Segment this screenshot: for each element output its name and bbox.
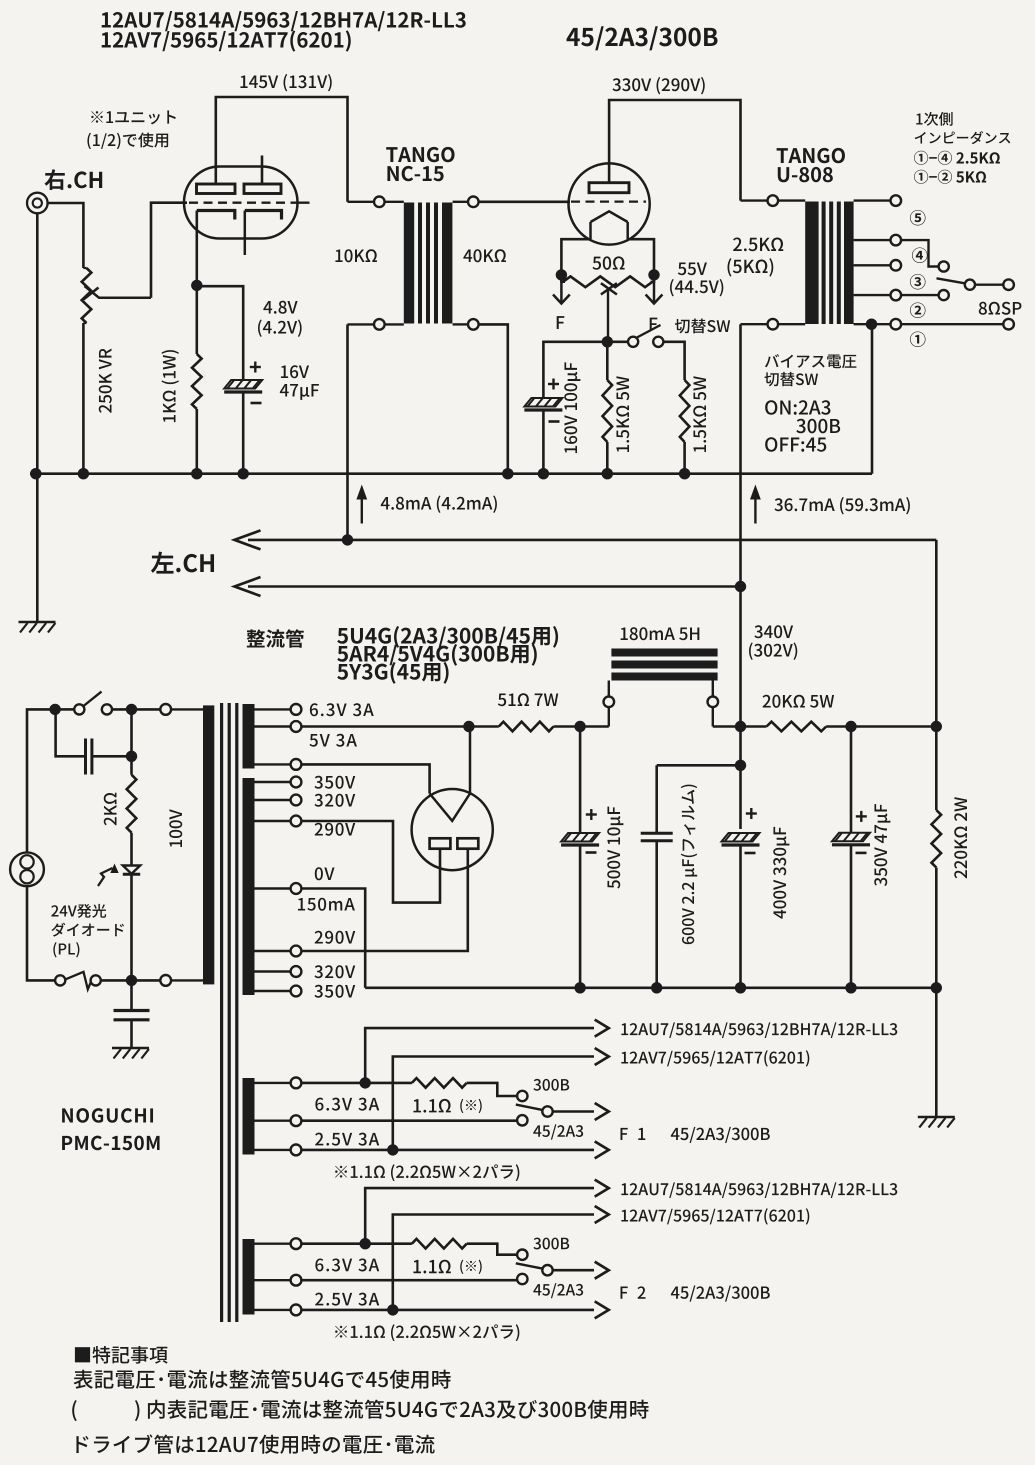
terminal 0V xyxy=(255,883,302,894)
selector contact 2 xyxy=(939,290,949,300)
transformer T3 secondary W3 xyxy=(243,1078,255,1155)
capacitor 47uF 350V plus xyxy=(856,811,867,822)
junction 2.2uF tee on 340V line xyxy=(735,760,746,771)
selector lever xyxy=(937,278,965,283)
wire cathode bias rail xyxy=(30,472,872,475)
label F1 2.5V 3A xyxy=(315,1133,379,1146)
label 100V xyxy=(169,809,182,847)
label 16V xyxy=(281,365,309,378)
terminal 350V lower xyxy=(255,986,302,997)
label 350V upper xyxy=(314,776,355,789)
wire F2 resistor to contact xyxy=(467,1244,517,1255)
LED pilot lamp xyxy=(123,866,140,875)
junction F2 6.3V xyxy=(360,1238,371,1249)
tube V3 plate b xyxy=(457,838,478,848)
junction F1 6.3V xyxy=(360,1077,371,1088)
wire switch to primary top xyxy=(112,708,160,711)
wire cap 47uF to rail xyxy=(242,392,245,474)
tube V3 plate a xyxy=(430,838,451,848)
capacitor mains to chassis xyxy=(114,980,150,1048)
wire selector to SP plus xyxy=(975,284,1003,286)
terminal 5V b xyxy=(255,759,302,770)
note line2 open paren xyxy=(72,1400,77,1421)
junction 1K bottom on rail xyxy=(191,468,202,479)
terminal T1 primary top xyxy=(348,197,404,208)
pin label 3 xyxy=(910,274,926,290)
tube U1 cathode a xyxy=(197,211,235,220)
label 2K ohm xyxy=(104,793,117,826)
switch SW bias contacts xyxy=(628,337,663,347)
switch F1 common xyxy=(542,1106,552,1116)
label 330V xyxy=(612,77,704,94)
label 4.2V xyxy=(258,319,302,336)
transformer T1 NC-15 primary winding xyxy=(404,203,414,324)
label 47uF xyxy=(280,384,319,400)
label 20K ohm 5W xyxy=(763,695,835,708)
terminal T1 secondary top xyxy=(453,197,479,208)
terminal F1 2.5V xyxy=(255,1145,302,1156)
label impedance 1-4 xyxy=(914,151,1000,165)
transformer T3 core xyxy=(220,703,238,1322)
arrow F left xyxy=(553,280,570,304)
label impedance 1-2 xyxy=(914,170,986,184)
junction mains top filter xyxy=(49,704,60,715)
wire wiper to grid xyxy=(151,203,187,298)
wire filament left to hum pot xyxy=(561,239,590,275)
capacitor 330uF plus xyxy=(746,808,757,819)
label TANGO 2 xyxy=(777,148,845,163)
transformer T1 core xyxy=(418,203,438,324)
label 0V xyxy=(315,867,335,880)
wire 5V a to 51 ohm xyxy=(301,725,498,728)
label F2 12AV7 heaters xyxy=(621,1208,809,1224)
tap wire 1 xyxy=(854,323,891,325)
capacitor 2.2uF film xyxy=(641,765,673,988)
label 44.5V xyxy=(670,279,723,296)
label NOGUCHI xyxy=(62,1108,153,1123)
junction bias node 2A3 xyxy=(602,336,613,347)
wire jack to volume pot xyxy=(48,203,84,268)
terminal F2 CT xyxy=(255,1275,302,1286)
label F right xyxy=(650,318,658,331)
capacitor 100uF electrolytic xyxy=(524,398,562,410)
label F2 1.1 ohm xyxy=(413,1260,450,1274)
switch F2 lever xyxy=(516,1263,543,1268)
terminal T1 secondary bottom xyxy=(453,319,479,330)
label 320V upper xyxy=(314,794,355,807)
label NC-15 xyxy=(387,166,443,181)
label 5V 3A xyxy=(309,734,356,747)
label 36.7mA xyxy=(774,497,909,514)
resistor F2 1.1 ohm xyxy=(412,1239,467,1249)
junction cap 100uF on rail xyxy=(538,468,549,479)
transformer T3 secondary W4 xyxy=(243,1239,255,1315)
tube U1 plate b lead stub xyxy=(261,156,264,185)
label 5U4G list2 xyxy=(337,644,537,666)
wire PSU ground rail xyxy=(365,986,936,989)
tube V3 5U4G envelope xyxy=(412,789,493,870)
label rectifier tube xyxy=(247,629,304,648)
junction 2.2uF bottom xyxy=(651,982,662,993)
resistor 20K 5W xyxy=(767,722,827,732)
label 6.3V 3A xyxy=(310,703,374,716)
terminal F2 6.3V xyxy=(255,1238,302,1249)
selector contact 4 xyxy=(939,261,949,271)
tube U1 grid lead right stub xyxy=(292,202,310,204)
label bias voltage line2 xyxy=(764,372,818,386)
pin label 1 xyxy=(910,331,926,347)
label bias ON 2A3 xyxy=(765,400,830,415)
wire tap4 to selector xyxy=(901,240,938,266)
label 55V xyxy=(678,262,707,275)
label 5U4G list3 xyxy=(337,662,448,684)
junction mains bottom xyxy=(126,975,137,986)
resistor 1K 1W cathode xyxy=(192,285,202,473)
potentiometer 50 ohm hum xyxy=(561,275,654,287)
terminal T2 primary bottom xyxy=(741,319,806,330)
wire F1 heater feed 12AU7 xyxy=(365,1020,609,1083)
tube U1 12AU7 envelope xyxy=(184,167,298,239)
tube V2 filament leads xyxy=(591,222,628,239)
wire F2 common arrow F xyxy=(553,1262,609,1279)
junction cap 10uF top xyxy=(574,721,585,732)
capacitor 330uF minus xyxy=(745,852,756,855)
tube U1 grid dashed xyxy=(189,202,292,204)
junction hum pot left xyxy=(556,269,567,280)
junction 1.5K no2 on rail xyxy=(679,468,690,479)
junction F2 2.5V xyxy=(387,1304,398,1315)
choke left terminal xyxy=(604,681,615,727)
switch mains bottom pole xyxy=(55,972,101,990)
note 1 unit used line2 xyxy=(87,132,168,149)
current arrow 36.7mA xyxy=(750,485,761,524)
label 350V lower xyxy=(314,985,355,998)
wire pot bottom to rail xyxy=(82,323,85,474)
switch F2 contact 45 2A3 xyxy=(517,1274,527,1284)
junction F1 2.5V xyxy=(387,1144,398,1155)
transformer T2 core xyxy=(822,202,841,325)
label 220K ohm 2W xyxy=(954,797,967,878)
pot 50 wiper arrow xyxy=(601,283,617,342)
label 150mA xyxy=(298,898,355,911)
arrow F right xyxy=(646,280,663,304)
junction 340V node xyxy=(735,721,746,732)
transformer T2 U-808 primary winding xyxy=(805,202,818,325)
wire plug bottom xyxy=(27,886,55,980)
wire T1 secondary bottom to rail xyxy=(479,324,508,473)
tube type title 12AV7 family xyxy=(102,30,351,51)
switch F1 contact 45 2A3 xyxy=(517,1115,527,1125)
label F2 6.3V 3A xyxy=(315,1258,379,1271)
label F2 2.5V 3A xyxy=(315,1293,379,1306)
terminal sec 3 xyxy=(891,260,902,271)
wire cap 100uF to rail xyxy=(542,410,545,474)
wire F2 2.5V arrow F xyxy=(301,1301,608,1318)
label kirikae SW xyxy=(675,318,730,333)
wire B plus feed line to left channel xyxy=(235,530,937,549)
node 145V plate supply label xyxy=(240,74,331,91)
terminal 320V lower xyxy=(255,966,302,977)
label 1.5K no1 xyxy=(616,376,629,452)
wire 290V lower to plate xyxy=(301,850,467,952)
wire 340V feed line to left channel xyxy=(235,577,741,596)
wire switch bottom to primary xyxy=(101,979,160,982)
terminal 320V upper xyxy=(255,795,302,806)
choke L1 winding xyxy=(611,649,717,681)
terminal T2 primary top xyxy=(741,195,806,206)
ground chassis mains xyxy=(112,1048,149,1059)
terminal speaker minus xyxy=(1003,319,1014,330)
wire F2 6.3V to resistor xyxy=(301,1242,412,1245)
terminal F1 6.3V xyxy=(255,1078,302,1089)
tube V2 plate xyxy=(589,183,629,193)
wire tap2 to selector xyxy=(901,294,938,296)
switch mains top pole xyxy=(74,692,112,715)
label 160V 100uF xyxy=(564,362,580,453)
wire tap1 to SP minus xyxy=(901,323,1003,325)
wire filament right to hum pot xyxy=(628,239,654,275)
label F1 12AV7 heaters xyxy=(621,1050,809,1066)
wire F1 2.5V arrow F xyxy=(301,1141,608,1158)
junction 220K bottom xyxy=(931,982,942,993)
label primary impedance 2 xyxy=(915,131,1011,144)
wire switch to 1.5K no2 xyxy=(663,342,684,380)
wire F1 heater feed 12AV7 xyxy=(393,1048,609,1150)
label 1K ohm 1W xyxy=(161,350,178,422)
LED arrow xyxy=(98,864,119,887)
junction T1 secondary bottom on rail xyxy=(502,468,513,479)
label F1 45 2A3 xyxy=(533,1124,583,1139)
wire F1 common arrow F xyxy=(553,1103,609,1120)
switch F1 contact 300B xyxy=(517,1091,527,1101)
resistor 220K 2W xyxy=(932,540,942,988)
terminal primary top xyxy=(160,704,203,715)
tap wire 2 xyxy=(854,294,891,296)
label 24V LED line3 xyxy=(53,942,79,957)
switch F2 contact 300B xyxy=(517,1250,527,1260)
label F1 12AU7 heaters xyxy=(621,1022,897,1038)
label 400V 330uF xyxy=(773,827,789,919)
potentiometer 250K VR body xyxy=(82,268,92,323)
label F1 1.1 note xyxy=(460,1099,481,1113)
junction 1.5K no1 on rail xyxy=(602,468,613,479)
label PMC-150M xyxy=(62,1136,159,1151)
capacitor 10uF minus xyxy=(586,851,597,854)
resistor 2K xyxy=(127,756,137,865)
junction cathode bias node xyxy=(191,280,202,291)
terminal 290V upper xyxy=(255,816,302,827)
junction NC15 B feed xyxy=(342,534,353,545)
wire F1 resistor to contact xyxy=(467,1083,517,1096)
tap wire 5 xyxy=(854,199,891,201)
label bias voltage line1 xyxy=(765,354,857,368)
terminal sec 1 xyxy=(891,319,902,330)
terminal primary bottom xyxy=(160,975,203,986)
wire 20K to B plus node xyxy=(826,725,936,728)
label F1 1.1 ohm xyxy=(413,1099,450,1113)
label F2 12AU7 heaters xyxy=(621,1182,897,1198)
junction hum pot right xyxy=(648,269,659,280)
capacitor 47uF minus xyxy=(251,402,262,405)
terminal F1 CT xyxy=(255,1115,302,1126)
capacitor line filter xyxy=(56,709,132,774)
label 5U4G list1 xyxy=(337,626,558,648)
choke right terminal xyxy=(708,681,719,727)
note 1 unit used line1 xyxy=(91,110,176,124)
capacitor 100uF minus xyxy=(549,420,560,423)
label 250K VR xyxy=(99,349,112,413)
resistor 1.5K 5W no2 xyxy=(680,380,690,474)
tube V2 2A3 envelope xyxy=(569,163,650,244)
wire T1 primary bottom to B+ line xyxy=(346,324,349,540)
label 350V 47uF xyxy=(874,804,890,886)
label F2 1.1 note xyxy=(460,1260,481,1274)
transformer T3 secondary W2 xyxy=(243,778,255,995)
capacitor 47uF 350V xyxy=(832,727,870,988)
label 40K ohm xyxy=(463,249,506,262)
label U-808 xyxy=(778,167,833,182)
terminal 6.3V top xyxy=(255,704,302,715)
label F2 output xyxy=(621,1286,770,1302)
wire F1 6.3V to resistor xyxy=(301,1082,412,1085)
label 24V LED line1 xyxy=(51,904,106,918)
wire top to 2K node xyxy=(130,709,133,756)
wire F2 heater feed 12AU7 xyxy=(365,1180,609,1244)
label 51 ohm 7W xyxy=(498,693,558,706)
junction cap 47uF on rail xyxy=(238,468,249,479)
label bias OFF 45 xyxy=(765,437,826,452)
label TANGO xyxy=(386,147,454,162)
resistor 51 ohm 7W xyxy=(499,722,554,732)
label F1 300B xyxy=(533,1079,569,1091)
capacitor 330uF 400V xyxy=(722,833,760,988)
label bias 300B xyxy=(796,419,840,434)
note line2 body xyxy=(148,1400,649,1419)
transformer T1 secondary winding xyxy=(442,203,452,324)
label F1 output xyxy=(621,1127,770,1143)
wire 330V supply to U-808 primary top xyxy=(609,100,740,201)
label 302V xyxy=(749,642,797,659)
junction pot bottom on rail xyxy=(78,468,89,479)
terminal speaker plus xyxy=(1003,279,1014,290)
label 10K ohm xyxy=(335,249,377,262)
capacitor 47uF electrolytic xyxy=(224,380,262,392)
tube V2 grid dashed xyxy=(571,200,646,202)
switch F2 common xyxy=(542,1265,552,1275)
capacitor 10uF 500V xyxy=(561,727,599,988)
label 1.5K no2 xyxy=(693,376,706,452)
label F1 parallel note xyxy=(335,1164,519,1181)
label 50 ohm xyxy=(592,256,624,269)
label F left xyxy=(557,316,565,329)
pin label 2 xyxy=(910,302,926,318)
label 500V 10uF xyxy=(607,807,623,889)
junction 47uF bottom xyxy=(845,982,856,993)
tube U1 plate b xyxy=(244,184,281,194)
junction cap 47uF top xyxy=(845,721,856,732)
capacitor 10uF plus xyxy=(586,809,597,820)
wire 0V to ground rail xyxy=(301,889,365,988)
label 320V lower xyxy=(314,965,355,978)
wire F2 CT to contact xyxy=(301,1279,517,1282)
wire 5V b to filament xyxy=(301,764,429,793)
note header xyxy=(75,1346,168,1364)
label 5K ohm xyxy=(728,258,774,276)
label 4.8mA xyxy=(381,495,497,512)
capacitor 47uF 350V minus xyxy=(856,852,867,855)
pot wiper arrow xyxy=(84,286,152,300)
junction jack ground on bias rail xyxy=(30,468,41,479)
label F2 parallel note xyxy=(335,1324,519,1341)
label F2 45 2A3 xyxy=(533,1283,583,1298)
wire 2.2uF tee xyxy=(657,764,741,767)
note line3 xyxy=(76,1434,434,1454)
wire LED to mains bottom xyxy=(130,874,133,980)
label left channel xyxy=(151,552,214,574)
switch F1 lever xyxy=(516,1105,543,1110)
terminal 5V a xyxy=(255,721,302,732)
terminal F2 2.5V xyxy=(255,1305,302,1316)
label right channel xyxy=(44,169,102,190)
wire bias node to cap 47uF xyxy=(197,286,243,380)
wire 290V upper to plate xyxy=(301,821,440,903)
transformer T3 secondary W1 xyxy=(243,704,255,769)
note line2 close paren xyxy=(135,1400,140,1421)
terminal sec 4 xyxy=(891,235,902,246)
tube U1 plate a xyxy=(197,184,236,194)
wire 51 ohm to choke xyxy=(554,725,609,728)
wire 145V supply to NC-15 primary top xyxy=(216,97,348,202)
tube V2 filament xyxy=(591,211,628,222)
transformer T3 primary winding xyxy=(203,705,214,984)
wire ground drop right xyxy=(935,988,938,1117)
junction sec 1 common xyxy=(866,319,877,330)
tube type title 12AU7 family xyxy=(102,11,466,31)
label choke 180mA 5H xyxy=(621,627,700,640)
terminal 350V upper xyxy=(255,777,302,788)
label 600V 2.2uF film xyxy=(681,785,697,945)
junction 340V feed on vertical xyxy=(735,581,746,592)
junction mains top after switch xyxy=(126,704,137,715)
note line1 xyxy=(73,1370,450,1389)
wire choke right to 20K xyxy=(713,725,767,728)
AC plug xyxy=(10,852,44,886)
tap wire 3 xyxy=(854,264,891,266)
wire rail right edge up to sec common xyxy=(871,324,874,474)
ground chassis left xyxy=(19,622,56,633)
label F1 6.3V 3A xyxy=(315,1098,379,1111)
label 8 ohm SP xyxy=(979,302,1022,315)
tube V3 filament xyxy=(430,727,470,821)
wire bias node to switch xyxy=(607,340,628,343)
label primary impedance 1 xyxy=(916,112,952,126)
wire mains top to switch xyxy=(60,708,74,711)
tube U1 cathode b xyxy=(245,211,282,256)
wire cathode a to bias node xyxy=(196,211,199,286)
resistor F1 1.1 ohm xyxy=(412,1078,467,1088)
label 290V lower xyxy=(315,931,356,944)
junction filament B plus xyxy=(463,721,474,732)
label 340V xyxy=(754,625,793,638)
junction 330uF bottom xyxy=(735,982,746,993)
input jack R-CH xyxy=(27,193,48,214)
wire F1 CT to contact xyxy=(301,1119,517,1122)
junction 10uF bottom xyxy=(574,982,585,993)
junction B plus node xyxy=(931,721,942,732)
wire plug top xyxy=(27,709,50,852)
terminal T1 primary bottom xyxy=(348,319,404,330)
tap wire 4 xyxy=(854,239,891,241)
